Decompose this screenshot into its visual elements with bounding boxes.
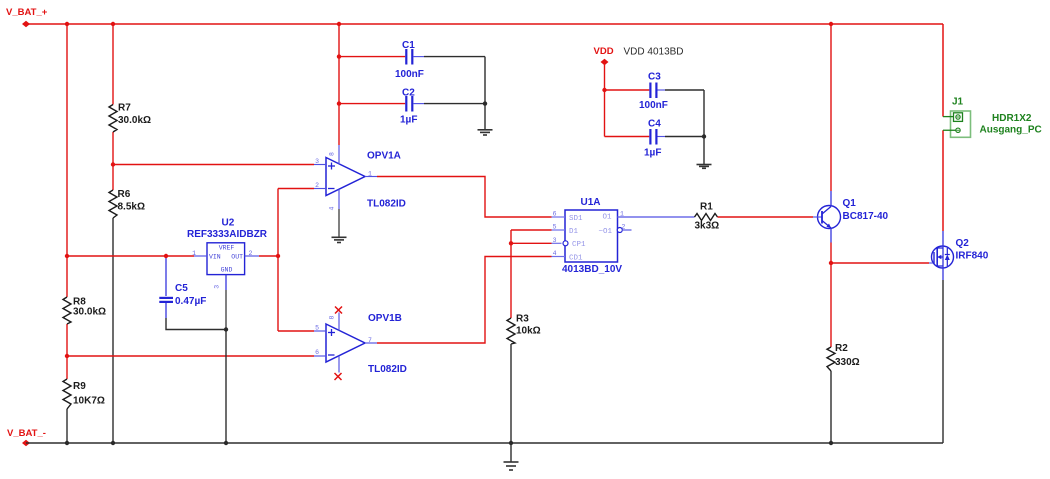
svg-text:SD1: SD1 — [569, 215, 583, 223]
svg-text:R6: R6 — [118, 189, 131, 200]
junction R7/R6 — [111, 162, 115, 166]
wire U1A O1 to R1 (blue net) — [618, 216, 695, 218]
wire OPV1A power from rail — [338, 24, 340, 145]
svg-text:1: 1 — [192, 250, 196, 257]
svg-text:2: 2 — [249, 250, 253, 257]
wire R8/VIN node to U2 pin1 — [67, 255, 194, 257]
wire J1 pin2 to Q2 drain — [942, 130, 944, 231]
junction C1 branch — [337, 54, 341, 58]
wire left branch x67 upper — [66, 24, 68, 297]
wire R7 to R6 — [112, 132, 114, 190]
svg-text:C3: C3 — [648, 72, 661, 83]
resistor R2 — [827, 347, 835, 371]
svg-text:Q2: Q2 — [956, 238, 970, 249]
wire U2 GND down — [225, 290, 227, 330]
junction R8 top wire — [65, 254, 69, 258]
svg-text:C1: C1 — [402, 40, 415, 51]
no-connect X OPV1B top — [335, 307, 342, 314]
svg-text:7: 7 — [368, 337, 372, 344]
svg-text:J1: J1 — [952, 97, 964, 108]
svg-text:6: 6 — [315, 349, 319, 356]
svg-text:GND: GND — [221, 267, 233, 274]
junction C1/C2 ground — [483, 101, 487, 105]
wire V_BAT_+ top rail — [26, 23, 943, 25]
svg-text:4: 4 — [553, 250, 557, 257]
resistor R6 — [109, 190, 117, 218]
svg-text:C4: C4 — [648, 119, 661, 130]
capacitor C5 — [159, 256, 206, 318]
svg-text:330Ω: 330Ω — [835, 357, 860, 368]
wire R9 to bottom rail — [66, 409, 68, 443]
svg-text:TL082ID: TL082ID — [368, 364, 407, 375]
junction bottom rail x67 — [65, 441, 69, 445]
svg-text:1µF: 1µF — [644, 148, 661, 159]
wire R7/R6 node to OPV1A pin3 — [113, 164, 314, 166]
junction C3/C4 ground — [702, 134, 706, 138]
ground R3 — [504, 462, 519, 470]
voltage reference U2 REF3333AIDBZR — [187, 218, 268, 291]
junction C2 branch — [337, 101, 341, 105]
wire C5 bottom to U2 gnd net — [166, 318, 226, 330]
resistor R3 — [507, 318, 515, 344]
svg-text:VDD 4013BD: VDD 4013BD — [624, 47, 684, 58]
junction CP1 wire — [509, 241, 513, 245]
svg-text:R2: R2 — [835, 343, 848, 354]
resistor R1 — [695, 214, 718, 221]
wire U2 out to feedback node — [259, 255, 278, 257]
junction bottom rail x831 — [829, 441, 833, 445]
op-amp U1 OPV1B — [314, 313, 407, 376]
svg-text:R1: R1 — [700, 202, 713, 213]
svg-text:10kΩ: 10kΩ — [516, 326, 541, 337]
svg-text:1µF: 1µF — [400, 115, 417, 126]
junction bottom rail x113 — [111, 441, 115, 445]
svg-text:V_BAT_+: V_BAT_+ — [6, 7, 48, 18]
svg-text:100nF: 100nF — [395, 69, 424, 80]
wire to OPV1B pin5 — [278, 330, 314, 332]
wire Q1 emitter to R2 — [830, 243, 832, 348]
wire to U1A D1 — [511, 229, 552, 231]
wire C1 right to ground branch — [424, 56, 485, 58]
svg-text:4: 4 — [329, 207, 336, 211]
transistor Q2 IRF840 — [929, 231, 989, 280]
wire OPV1A out to U1A SD1 — [377, 177, 552, 218]
svg-text:2: 2 — [622, 224, 626, 231]
svg-text:3: 3 — [214, 285, 221, 289]
svg-text:D1: D1 — [569, 228, 579, 236]
svg-text:TL082ID: TL082ID — [367, 199, 406, 210]
node V_BAT_+ terminal diamond — [22, 21, 30, 27]
resistor R7 — [109, 105, 117, 133]
svg-text:BC817-40: BC817-40 — [843, 211, 889, 222]
wire OPV1B out to U1A CD1 — [377, 257, 552, 344]
wire Q1 emitter to Q2 gate — [831, 262, 929, 264]
wire feedback vertical x278 — [277, 189, 279, 332]
wire U2 GND to bottom rail — [225, 330, 227, 444]
wire C2 left — [339, 103, 405, 105]
wire V_BAT_- bottom rail — [26, 442, 943, 444]
svg-text:1: 1 — [368, 171, 372, 178]
junction top rail x67 — [65, 22, 69, 26]
svg-text:4013BD_10V: 4013BD_10V — [562, 264, 622, 275]
ground OPV1A — [332, 237, 347, 242]
svg-text:REF3333AIDBZR: REF3333AIDBZR — [187, 229, 268, 240]
wire U2 out / D1 branch vertical — [510, 230, 512, 318]
junction R8/R9 — [65, 354, 69, 358]
svg-text:8: 8 — [329, 152, 336, 156]
wire R1 to Q1 base — [718, 216, 814, 218]
svg-text:R3: R3 — [516, 314, 529, 325]
wire C3/C4 ground vertical — [703, 90, 705, 164]
junction bottom rail x511 — [509, 441, 513, 445]
wire R2 to bottom rail — [830, 371, 832, 443]
wire R8/R9 node to OPV1B pin6 — [67, 355, 314, 357]
ground C1/C2 — [478, 130, 493, 135]
svg-text:C2: C2 — [402, 88, 415, 99]
svg-text:VDD: VDD — [594, 46, 614, 57]
wire VDD vertical — [604, 62, 606, 137]
svg-text:C5: C5 — [175, 283, 188, 294]
svg-text:IRF840: IRF840 — [956, 251, 989, 262]
svg-text:8: 8 — [329, 316, 336, 320]
svg-text:U2: U2 — [222, 218, 235, 229]
wire Q1 collector to rail — [830, 24, 832, 191]
wire C2 right to ground branch — [424, 103, 485, 105]
junction top rail x113 — [111, 22, 115, 26]
svg-text:VIN: VIN — [209, 254, 221, 261]
capacitor C4 — [644, 119, 665, 159]
connector J1 HDR1X2 — [943, 97, 1042, 138]
junction Q1 emitter node — [829, 261, 833, 265]
wire C1 left — [339, 56, 405, 58]
wire top rail to J1 pin1 — [942, 24, 944, 117]
svg-text:V_BAT_-: V_BAT_- — [7, 428, 46, 439]
junction top rail x339 — [337, 22, 341, 26]
svg-text:Q1: Q1 — [843, 198, 857, 209]
wire C3 left — [605, 89, 650, 91]
no-connect X OPV1B bottom — [335, 373, 342, 380]
resistor R9 — [63, 379, 71, 409]
wire C4 left — [605, 136, 650, 138]
wire OPV1A gnd stub — [338, 209, 340, 237]
svg-text:CD1: CD1 — [569, 254, 583, 262]
wire to OPV1A pin2 — [278, 188, 314, 190]
svg-text:O1: O1 — [603, 213, 613, 221]
svg-text:100nF: 100nF — [639, 100, 668, 111]
svg-text:CP1: CP1 — [572, 241, 586, 249]
svg-text:U1A: U1A — [581, 197, 601, 208]
svg-text:3: 3 — [553, 237, 557, 244]
svg-text:0.47µF: 0.47µF — [175, 296, 206, 307]
junction C5 top — [164, 254, 168, 258]
wire C3 right — [665, 89, 704, 91]
wire left branch x113 top to R7 — [112, 24, 114, 105]
op-amp U1 OPV1A — [314, 145, 406, 211]
svg-text:10K7Ω: 10K7Ω — [73, 396, 105, 407]
wire Q2 source to bottom rail — [942, 280, 944, 443]
svg-text:~O1: ~O1 — [599, 228, 613, 236]
svg-text:HDR1X2: HDR1X2 — [992, 113, 1032, 124]
wire R8 to R9 — [66, 324, 68, 379]
svg-text:3k3Ω: 3k3Ω — [695, 221, 720, 232]
wire to U1A CP1 — [511, 242, 552, 244]
svg-text:8.5kΩ: 8.5kΩ — [118, 202, 145, 213]
transistor Q1 BC817-40 — [813, 191, 889, 243]
capacitor C2 — [400, 88, 424, 126]
svg-text:5: 5 — [315, 325, 319, 332]
junction C5/U2 gnd — [224, 327, 228, 331]
svg-text:OUT: OUT — [231, 254, 243, 261]
capacitor C3 — [639, 72, 668, 112]
wire R3 to ground — [510, 344, 512, 462]
svg-text:5: 5 — [553, 224, 557, 231]
junction VDD C3 — [602, 88, 606, 92]
junction top rail x831 — [829, 22, 833, 26]
svg-text:3: 3 — [315, 158, 319, 165]
svg-text:2: 2 — [315, 182, 319, 189]
svg-text:OPV1A: OPV1A — [367, 151, 401, 162]
wire C4 right — [665, 136, 704, 138]
svg-text:30.0kΩ: 30.0kΩ — [118, 115, 151, 126]
power VDD terminal diamond — [601, 59, 609, 65]
svg-text:R7: R7 — [118, 103, 131, 114]
ground C3/C4 — [697, 165, 712, 169]
svg-text:VREF: VREF — [219, 244, 235, 251]
junction U2 out feedback — [276, 254, 280, 258]
svg-text:Ausgang_PC: Ausgang_PC — [980, 125, 1042, 136]
svg-text:R9: R9 — [73, 381, 86, 392]
node V_BAT_- terminal diamond — [22, 440, 30, 446]
junction bottom rail x226 — [224, 441, 228, 445]
flip-flop U1A 4013BD — [552, 197, 632, 275]
svg-text:OPV1B: OPV1B — [368, 313, 402, 324]
svg-text:30.0kΩ: 30.0kΩ — [73, 307, 106, 318]
svg-text:6: 6 — [553, 211, 557, 218]
capacitor C1 — [395, 40, 424, 80]
wire C1/C2 ground vertical — [484, 57, 486, 129]
resistor R8 — [63, 297, 71, 324]
wire R6 to bottom rail — [112, 218, 114, 443]
